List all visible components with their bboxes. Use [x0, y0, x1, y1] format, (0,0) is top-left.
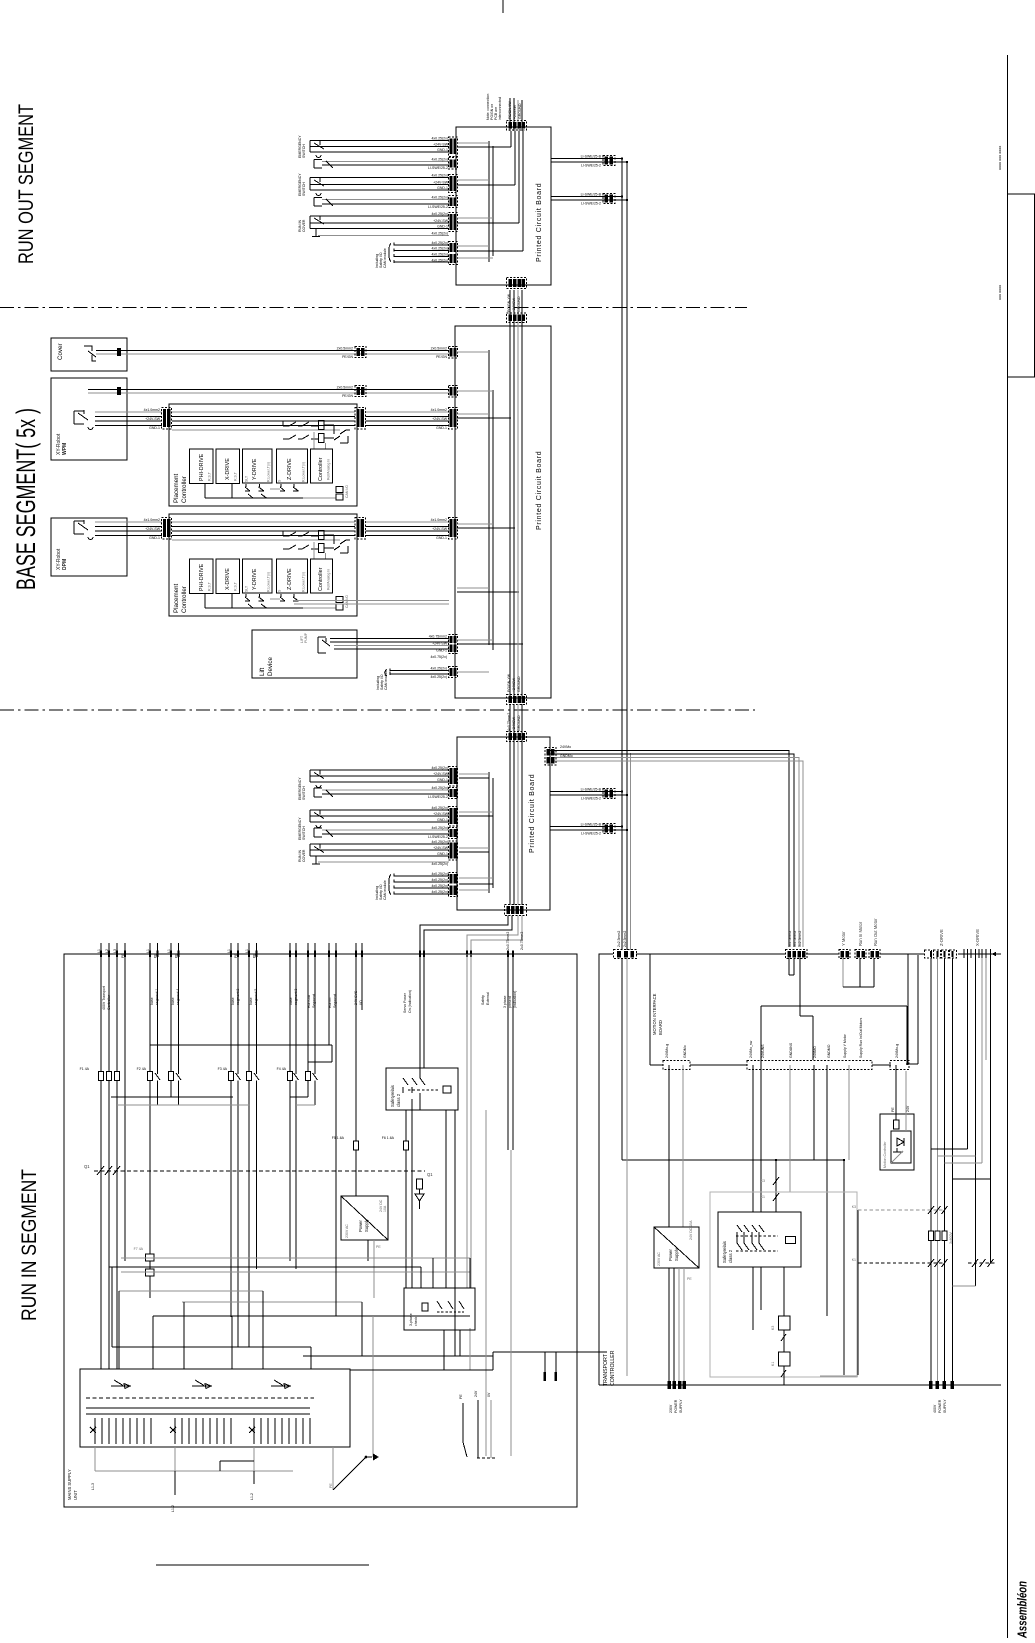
- PCB3 bottom connector: [505, 905, 527, 916]
- svg-text:R,S,T: R,S,T: [234, 471, 238, 481]
- svg-text:TRANSPORT: TRANSPORT: [603, 1353, 609, 1386]
- svg-text:check: check: [414, 1317, 418, 1326]
- svg-text:L3: L3: [113, 949, 117, 953]
- svg-text:L1-3: L1-3: [91, 1483, 95, 1490]
- svg-text:class 2: class 2: [728, 1249, 733, 1263]
- wires Q1 to mains unit: [101, 1171, 117, 1369]
- X drive connector: [962, 929, 996, 958]
- S1 wire labels: [428, 137, 449, 170]
- svg-text:Ref/Analog In: Ref/Analog In: [327, 459, 331, 480]
- svg-text:2x0.5mm2: 2x0.5mm2: [431, 347, 447, 351]
- svg-text:Run Out Motor: Run Out Motor: [873, 918, 878, 946]
- svg-text:+24VSW: +24VSW: [512, 297, 516, 312]
- drive column jogs: [931, 1149, 991, 1286]
- Z drive connector: [925, 929, 957, 958]
- top fold tick: [502, 0, 504, 13]
- svg-text:4x0.25(2x): 4x0.25(2x): [430, 675, 447, 679]
- svg-text:24V DC 10A: 24V DC 10A: [689, 1220, 693, 1240]
- svg-text:+24VSW: +24VSW: [512, 677, 516, 692]
- svg-text:LI-SWE/25-2: LI-SWE/25-2: [581, 201, 601, 205]
- svg-text:R,Lower,T(s): R,Lower,T(s): [302, 462, 306, 482]
- gap link ticks: [544, 1352, 558, 1381]
- lift safety CAN return pair: [376, 667, 458, 691]
- S3 group label: [298, 219, 306, 232]
- svg-text:Q1: Q1: [427, 1172, 433, 1177]
- svg-text:Printed Circuit Board: Printed Circuit Board: [529, 774, 536, 853]
- S1 group label: [298, 135, 306, 158]
- motion interface board: [650, 954, 909, 1070]
- svg-text:4x0.75mm2: 4x0.75mm2: [429, 635, 447, 639]
- svg-text:3x600V: 3x600V: [949, 1231, 953, 1244]
- svg-text:PE: PE: [234, 953, 238, 958]
- svg-text:2x0.75mm2: 2x0.75mm2: [506, 932, 510, 950]
- svg-text:DPM: DPM: [62, 559, 68, 570]
- svg-text:LI-SWE/25-2: LI-SWE/25-2: [581, 831, 601, 835]
- vertical trunk bus right side: [622, 159, 631, 951]
- feeder stubs base segment 4: [167, 943, 180, 1074]
- svg-text:segment 1: segment 1: [155, 989, 159, 1005]
- svg-text:Device: Device: [267, 657, 274, 676]
- svg-text:+24V-SW: +24V-SW: [433, 846, 449, 850]
- S3 wire labels: [431, 212, 448, 236]
- svg-text:LI-SWE/25-B: LI-SWE/25-B: [581, 155, 602, 159]
- svg-text:4x0.25(2x): 4x0.25(2x): [431, 158, 448, 162]
- PCB right stub pair A: [551, 155, 628, 168]
- cover connector on PCB: [449, 347, 458, 359]
- cover box: [51, 338, 127, 371]
- safety relais class 2 (run in): [386, 1068, 458, 1110]
- fuse pair mid: [332, 1136, 409, 1150]
- feeder stubs 24V SYS I/O: [354, 943, 363, 1141]
- lift device box: [252, 630, 357, 678]
- svg-text:4x0.25(2x): 4x0.25(2x): [431, 840, 448, 844]
- svg-text:PE: PE: [329, 1483, 333, 1488]
- trunk bus connector at transport: [614, 931, 637, 959]
- svg-text:Y Motor: Y Motor: [841, 931, 846, 946]
- PE earth diagonal: [329, 1447, 379, 1490]
- DPM switch and row wires: [74, 518, 162, 540]
- breaker 2: [192, 1380, 212, 1389]
- PCB3 right stub pair B: [550, 823, 628, 836]
- svg-text:F5 1.6A: F5 1.6A: [332, 1136, 345, 1140]
- svg-text:PE: PE: [154, 953, 158, 958]
- S3 connector on PCB: [449, 213, 458, 232]
- svg-text:4x0.25(2x): 4x0.25(2x): [431, 258, 448, 262]
- S1 connector on PCB: [449, 137, 458, 169]
- Z drive wiring column: [931, 958, 953, 1385]
- svg-text:Controller: Controller: [318, 457, 324, 481]
- svg-text:LI-SWE/25-2: LI-SWE/25-2: [428, 795, 448, 799]
- svg-text:GND-1: GND-1: [437, 186, 448, 190]
- svg-text:present: present: [508, 996, 512, 1008]
- run in segment enclosure: [64, 954, 577, 1507]
- svg-text:Segment: Segment: [312, 994, 316, 1008]
- WPM switch and row B wires: [74, 408, 162, 430]
- svg-text:GROUND: GROUND: [517, 296, 521, 312]
- winding bars: [86, 1408, 310, 1414]
- label safety external: [481, 992, 490, 1005]
- PCB3 top connector: [507, 732, 527, 742]
- breaker 1: [111, 1380, 131, 1389]
- svg-text:GNDMo: GNDMo: [683, 1045, 687, 1058]
- svg-text:4x0.25(2x): 4x0.25(2x): [431, 766, 448, 770]
- svg-text:24VMo: 24VMo: [560, 745, 571, 749]
- motion controller feed: [891, 1065, 910, 1131]
- svg-text:Y-DRIVE: Y-DRIVE: [252, 458, 258, 480]
- svg-text:24VMO: 24VMO: [813, 1046, 817, 1058]
- svg-text:4x0.25(2x): 4x0.25(2x): [431, 878, 448, 882]
- svg-text:Run In: Run In: [328, 998, 332, 1008]
- svg-text:PE: PE: [459, 1394, 463, 1399]
- wiring below fuses: [101, 1081, 315, 1348]
- svg-text:L1: L1: [227, 949, 231, 953]
- svg-text:F1 4A: F1 4A: [80, 1067, 90, 1071]
- svg-text:segment 3: segment 3: [294, 989, 298, 1005]
- svg-text:400V: 400V: [933, 1404, 937, 1413]
- safety relais class 2 (transport): [718, 1212, 801, 1267]
- trunk bus crossing to run-in section: [507, 704, 522, 742]
- reference underline: [156, 1564, 369, 1566]
- 3 phase check outputs: [350, 1110, 607, 1456]
- svg-text:3x2.5mm2: 3x2.5mm2: [798, 931, 802, 947]
- svg-text:230V: 230V: [669, 1404, 673, 1413]
- power supply PS2 (transport): [654, 1220, 699, 1268]
- svg-text:GROUND: GROUND: [517, 715, 521, 731]
- main switch Q1 dashed link: [84, 1164, 433, 1209]
- svg-text:PE: PE: [687, 1277, 692, 1281]
- svg-text:PE: PE: [376, 1245, 381, 1249]
- svg-text:RUN OUT SEGMENT: RUN OUT SEGMENT: [15, 104, 38, 264]
- feeder stubs base segment 5: [245, 943, 258, 1074]
- X drive wiring column: [968, 958, 991, 1286]
- svg-text:4x0.75mm2: 4x0.75mm2: [507, 713, 511, 731]
- external supply stub symbol: [459, 1390, 497, 1458]
- svg-text:GND-1: GND-1: [149, 536, 160, 540]
- svg-text:R,Lower,T(s): R,Lower,T(s): [267, 462, 271, 482]
- label servo power on: [403, 990, 412, 1013]
- run in cover switch S3 group: [310, 216, 449, 237]
- transformer winding combs: [90, 1418, 310, 1444]
- svg-text:24VUNS: 24VUNS: [761, 1044, 765, 1058]
- feeder stubs run in segment: [328, 943, 337, 1045]
- WPM row A wires: [88, 386, 458, 399]
- drive fuses 3x: [929, 1231, 954, 1244]
- svg-text:Printed Circuit Board: Printed Circuit Board: [536, 451, 543, 530]
- svg-text:Printed Circuit Board: Printed Circuit Board: [536, 183, 543, 262]
- svg-text:PE/GN: PE/GN: [436, 355, 447, 359]
- svg-text:base: base: [150, 997, 154, 1005]
- Z drive: [277, 449, 308, 483]
- feeder stubs base segment 1: [146, 943, 159, 1074]
- relay pair K5: [134, 1247, 154, 1298]
- label 3 phase present: [503, 991, 517, 1008]
- svg-text:Cover: Cover: [57, 343, 64, 360]
- under drive contacts: [245, 484, 264, 491]
- svg-text:4x1.0mm2: 4x1.0mm2: [431, 408, 447, 412]
- svg-text:L1-2: L1-2: [250, 1493, 254, 1500]
- svg-text:Safetyrelais: Safetyrelais: [722, 1241, 727, 1263]
- svg-text:4x0.25(2x): 4x0.25(2x): [431, 196, 448, 200]
- safety I/O CAN group wires: [389, 243, 449, 263]
- svg-text:xxx xxxx: xxx xxxx: [997, 285, 1002, 300]
- svg-text:GND-1: GND-1: [437, 778, 448, 782]
- 230V feed to PS2: [668, 1268, 693, 1413]
- svg-text:base: base: [249, 997, 253, 1005]
- svg-text:PE: PE: [253, 953, 257, 958]
- svg-text:CONTROLLER: CONTROLLER: [610, 1350, 616, 1386]
- svg-text:2x0.5mm2: 2x0.5mm2: [337, 347, 353, 351]
- servo power wires into safety relais: [420, 954, 424, 1078]
- svg-text:BOARD: BOARD: [658, 1020, 663, 1035]
- svg-text:4x0.25(2x): 4x0.25(2x): [431, 247, 448, 251]
- svg-text:24V: 24V: [906, 1105, 910, 1112]
- svg-text:segment 2: segment 2: [236, 989, 240, 1005]
- safety external wires: [467, 954, 471, 1288]
- MIB outputs to units: [669, 1065, 849, 1316]
- svg-text:PG/GN-YW: PG/GN-YW: [507, 673, 511, 692]
- svg-text:+24V-SW: +24V-SW: [145, 527, 161, 531]
- svg-text:K1: K1: [771, 1362, 775, 1366]
- Y supply bundle connector: [786, 931, 808, 959]
- PCB2 bottom connector: [507, 673, 527, 704]
- contactor K1 dashed row: [852, 1258, 997, 1267]
- svg-text:WPM: WPM: [62, 443, 68, 455]
- bus drop inside transport: [622, 958, 858, 1376]
- svg-text:F7 4A: F7 4A: [134, 1247, 144, 1251]
- svg-text:2x0.75mm2: 2x0.75mm2: [520, 932, 524, 950]
- CAN module note: [375, 248, 387, 268]
- svg-text:GND-1: GND-1: [437, 225, 448, 229]
- placement controller 1: [162, 404, 366, 506]
- svg-text:X-DRIVE: X-DRIVE: [975, 929, 980, 946]
- svg-text:Lift: Lift: [259, 667, 266, 676]
- svg-text:L1-2: L1-2: [171, 1505, 175, 1512]
- svg-text:3x1.5mm2: 3x1.5mm2: [788, 931, 792, 947]
- safety relais outputs down: [406, 1110, 455, 1356]
- power supply PS1: [341, 1196, 388, 1240]
- svg-text:LI-SWE/25-2: LI-SWE/25-2: [428, 205, 448, 209]
- XY robot DPM box: [51, 518, 127, 576]
- svg-text:PE/GN: PE/GN: [342, 355, 353, 359]
- PHI drive: [190, 449, 214, 484]
- S2 connector on PCB: [449, 175, 458, 208]
- collector line run-in/run-out: [150, 1045, 332, 1062]
- svg-text:4x0.25(2x): 4x0.25(2x): [431, 212, 448, 216]
- contactor K3 dashed row: [852, 1205, 948, 1214]
- PCB right stub pair B: [551, 193, 628, 206]
- wires PCB3 bottom to run-in segment: [420, 916, 524, 955]
- 24V wire into power supply: [355, 1150, 357, 1196]
- svg-text:4x0.25(2x): 4x0.25(2x): [431, 872, 448, 876]
- svg-text:GND-1: GND-1: [437, 148, 448, 152]
- svg-text:F2 4A: F2 4A: [137, 1067, 147, 1071]
- svg-text:3-phase: 3-phase: [409, 1313, 413, 1326]
- svg-text:CAN module: CAN module: [383, 248, 387, 268]
- svg-text:K3: K3: [771, 1326, 775, 1330]
- svg-text:+24V-SW: +24V-SW: [433, 180, 449, 184]
- svg-text:External: External: [486, 992, 490, 1005]
- svg-text:4x0.25(2x): 4x0.25(2x): [431, 884, 448, 888]
- svg-text:Controller: Controller: [107, 994, 111, 1010]
- svg-text:PG/GN-YW: PG/GN-YW: [507, 293, 511, 312]
- feeder connector ticks on top edge: [100, 951, 514, 958]
- svg-text:24V: 24V: [474, 1390, 478, 1397]
- svg-text:Power: Power: [358, 1220, 363, 1232]
- svg-text:I/O: I/O: [359, 1000, 363, 1005]
- Y motor connector: [839, 931, 850, 959]
- S2 group label: [298, 173, 306, 196]
- relay contact cluster: [283, 421, 319, 439]
- svg-text:GND-1: GND-1: [437, 818, 448, 822]
- svg-text:S: S: [278, 479, 282, 482]
- svg-text:+24V-SW: +24V-SW: [433, 772, 449, 776]
- svg-text:POWER: POWER: [938, 1399, 942, 1413]
- transport controller enclosure: [599, 954, 1001, 1386]
- svg-text:4x0.25(2x): 4x0.25(2x): [431, 241, 448, 245]
- svg-text:24VMo-g: 24VMo-g: [895, 1044, 899, 1058]
- svg-text:+24V-SW: +24V-SW: [432, 527, 448, 531]
- svg-text:GND-1: GND-1: [436, 649, 447, 653]
- svg-text:L1: L1: [245, 949, 249, 953]
- svg-text:LI-SWE/25-B: LI-SWE/25-B: [581, 193, 602, 197]
- motion controller unit: [880, 1114, 914, 1170]
- PCB interior wiring: [457, 131, 523, 262]
- S2 wire labels: [428, 174, 449, 209]
- svg-text:On (Indication): On (Indication): [408, 990, 412, 1013]
- svg-text:Supply Y Motor: Supply Y Motor: [843, 1033, 847, 1058]
- svg-text:24VMo-g: 24VMo-g: [665, 1044, 669, 1058]
- svg-text:PE/GN-YW: PE/GN-YW: [508, 101, 512, 119]
- cover/WPM wires continue to PCB right column: [294, 601, 449, 605]
- svg-text:Safetyrelais: Safetyrelais: [390, 1085, 395, 1107]
- power supply outputs: [368, 1240, 381, 1298]
- printed circuit board U3 (run in): [457, 737, 550, 910]
- trunk bus through base segment: [507, 290, 527, 698]
- svg-text:400V Transport: 400V Transport: [102, 986, 106, 1010]
- svg-text:4x1.0mm2: 4x1.0mm2: [431, 518, 447, 522]
- svg-text:PE: PE: [121, 953, 125, 958]
- svg-text:4x0.25(2x): 4x0.25(2x): [431, 137, 448, 141]
- PCB top connector X1: [507, 98, 527, 131]
- feeder stubs base segment 3: [289, 943, 298, 1074]
- svg-text:segment 4: segment 4: [176, 989, 180, 1005]
- relay cabinet outline: [710, 1192, 857, 1377]
- svg-text:24V SYS: 24V SYS: [354, 990, 358, 1005]
- svg-text:4x0.25(2x): 4x0.25(2x): [431, 232, 448, 236]
- svg-text:PUMP: PUMP: [304, 632, 308, 643]
- MIB internal frame: [761, 955, 918, 1065]
- PCB3 right stub pair A: [550, 788, 628, 801]
- svg-text:GND-1: GND-1: [149, 426, 160, 430]
- svg-text:Power: Power: [668, 1249, 673, 1261]
- printed circuit board U1 (run out): [456, 127, 551, 285]
- svg-text:+24V-SW: +24V-SW: [433, 812, 449, 816]
- svg-text:Q1: Q1: [84, 1164, 90, 1169]
- svg-text:10A: 10A: [383, 1205, 387, 1212]
- svg-text:RUN IN SEGMENT: RUN IN SEGMENT: [18, 1169, 41, 1321]
- svg-text:2x2.5mm2: 2x2.5mm2: [623, 931, 627, 947]
- svg-text:4x1.0mm2: 4x1.0mm2: [144, 518, 160, 522]
- svg-text:Z-DRIVE: Z-DRIVE: [939, 929, 944, 946]
- svg-text:L1: L1: [97, 949, 101, 953]
- svg-text:Run Out: Run Out: [307, 995, 311, 1008]
- segment separator dash-dot line 1: [0, 307, 747, 309]
- emergency switch S2 group: [310, 178, 449, 207]
- svg-text:CAN I/O: CAN I/O: [345, 485, 349, 498]
- svg-text:(Indication): (Indication): [513, 991, 517, 1008]
- svg-text:Motion Controller: Motion Controller: [883, 1141, 887, 1168]
- svg-text:+24VSW: +24VSW: [513, 104, 517, 119]
- svg-text:X-DRIVE: X-DRIVE: [225, 458, 231, 480]
- CAN I/O ports: [336, 487, 343, 493]
- 400V power supply bottom connector: [929, 1381, 954, 1413]
- svg-text:K3: K3: [761, 1179, 765, 1183]
- svg-text:4x0.25(2x): 4x0.25(2x): [431, 253, 448, 257]
- internal dashed link: [86, 1397, 314, 1399]
- svg-text:MAINS SUPPLY: MAINS SUPPLY: [67, 1469, 72, 1500]
- svg-text:LI-SWE/25-2: LI-SWE/25-2: [428, 835, 448, 839]
- svg-text:GROUND: GROUND: [518, 103, 522, 119]
- svg-text:GNDMO: GNDMO: [827, 1044, 831, 1058]
- printed circuit board U2 (base): [455, 326, 551, 698]
- svg-text:GNDMo: GNDMo: [560, 754, 573, 758]
- svg-text:4x0.25(2x): 4x0.25(2x): [431, 862, 448, 866]
- svg-text:MOTION INTERFACE: MOTION INTERFACE: [652, 993, 657, 1035]
- svg-text:0V: 0V: [487, 1392, 491, 1397]
- svg-text:4x0.75(2x): 4x0.75(2x): [430, 655, 447, 659]
- run in motor connector: [855, 921, 866, 958]
- distribution bus horizontals: [109, 1045, 493, 1457]
- svg-text:LI-SWE/25-2: LI-SWE/25-2: [581, 163, 601, 167]
- svg-text:PE: PE: [175, 953, 179, 958]
- svg-text:4x0.25(2x): 4x0.25(2x): [431, 786, 448, 790]
- feeder stubs 400V transport controller: [97, 943, 125, 1261]
- svg-text:class 2: class 2: [396, 1093, 401, 1107]
- PCB top wire labels: [508, 101, 522, 119]
- svg-text:4x0.25(2x): 4x0.25(2x): [430, 667, 447, 671]
- svg-text:Supply: Supply: [674, 1247, 679, 1261]
- faint revision text right edge: [997, 146, 1002, 300]
- svg-text:4x0.25(2x): 4x0.25(2x): [431, 174, 448, 178]
- fuse row F1..F12: [80, 1067, 318, 1081]
- run in cover switch S6 group: [298, 840, 458, 866]
- svg-text:GROUND: GROUND: [517, 676, 521, 692]
- X drive: [216, 449, 240, 484]
- mains supply unit label: [67, 1469, 78, 1500]
- svg-text:PHI-DRIVE: PHI-DRIVE: [199, 453, 205, 481]
- svg-text:LI-SWE/25-2: LI-SWE/25-2: [581, 796, 601, 800]
- svg-text:L1: L1: [146, 949, 150, 953]
- svg-text:Z-DRIVE: Z-DRIVE: [287, 458, 293, 480]
- svg-text:230V AC: 230V AC: [345, 1224, 349, 1238]
- svg-text:R,S,T: R,S,T: [208, 471, 212, 481]
- title block rectangle right edge: [1008, 194, 1035, 377]
- svg-text:Supply: Supply: [364, 1218, 369, 1232]
- svg-text:+24V-SW: +24V-SW: [433, 142, 449, 146]
- svg-text:Safety: Safety: [481, 995, 485, 1005]
- svg-text:F3 4A: F3 4A: [218, 1067, 228, 1071]
- emergency switch S1 group: [310, 141, 449, 169]
- lift wires to PCB: [330, 635, 458, 660]
- mains supply unit box: [80, 1369, 350, 1447]
- svg-text:Assembléon: Assembléon: [1016, 1581, 1030, 1639]
- placement controller 2: [162, 514, 366, 616]
- svg-text:3 phase: 3 phase: [503, 995, 507, 1008]
- svg-text:SLT: SLT: [245, 475, 249, 482]
- XY robot WPM box: [51, 378, 127, 460]
- svg-text:Segment: Segment: [333, 994, 337, 1008]
- Y drive: [243, 449, 273, 483]
